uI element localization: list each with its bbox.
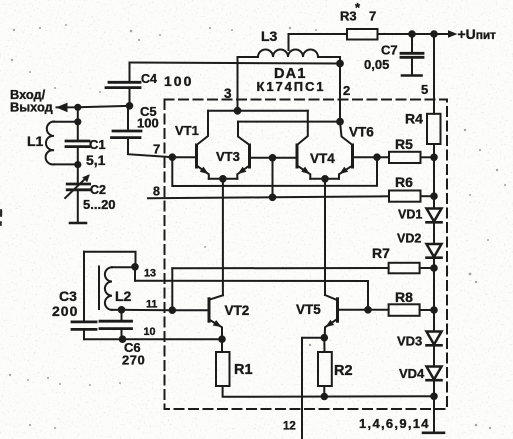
svg-text:0,05: 0,05 [364, 57, 389, 72]
svg-text:5,1: 5,1 [86, 152, 106, 168]
svg-text:C3: C3 [59, 288, 77, 304]
svg-text:5: 5 [421, 82, 428, 97]
svg-text:VT4: VT4 [310, 151, 335, 166]
svg-text:VT3: VT3 [216, 149, 240, 164]
svg-text:11: 11 [146, 299, 157, 311]
svg-text:8: 8 [153, 185, 160, 199]
svg-text:VT5: VT5 [296, 302, 321, 317]
svg-text:12: 12 [283, 421, 296, 433]
svg-text:7: 7 [153, 142, 160, 157]
svg-text:VD2: VD2 [397, 232, 421, 246]
svg-text:3: 3 [224, 86, 232, 101]
svg-text:200: 200 [52, 303, 78, 319]
svg-text:2: 2 [343, 83, 350, 98]
svg-text:R5: R5 [395, 136, 413, 152]
svg-text:R1: R1 [234, 362, 253, 378]
svg-text:R7: R7 [372, 245, 390, 261]
svg-text:1,4,6,9,14: 1,4,6,9,14 [359, 416, 430, 431]
svg-text:L1: L1 [27, 133, 44, 149]
svg-text:C1: C1 [89, 137, 106, 152]
svg-text:VT1: VT1 [175, 123, 199, 138]
svg-text:C4: C4 [141, 72, 157, 86]
svg-text:100: 100 [164, 73, 193, 89]
svg-text:R6: R6 [395, 174, 413, 190]
svg-text:270: 270 [122, 353, 145, 368]
svg-text:VT6: VT6 [349, 125, 374, 140]
svg-text:К174ПС1: К174ПС1 [257, 79, 326, 94]
svg-text:C7: C7 [381, 43, 398, 58]
svg-text:10: 10 [144, 326, 156, 338]
svg-text:VD4: VD4 [399, 366, 425, 381]
svg-text:Выход: Выход [10, 100, 53, 115]
svg-text:R4: R4 [405, 111, 423, 127]
svg-text:5...20: 5...20 [83, 197, 116, 212]
svg-text:R8: R8 [395, 289, 413, 305]
svg-text:+Uпит: +Uпит [458, 26, 497, 42]
svg-text:C2: C2 [90, 183, 106, 197]
svg-text:VT2: VT2 [225, 303, 250, 318]
svg-text:R2: R2 [334, 363, 353, 379]
svg-text:100: 100 [137, 116, 159, 131]
svg-text:VD3: VD3 [397, 334, 422, 349]
svg-text:L2: L2 [115, 288, 132, 304]
svg-text:VD1: VD1 [398, 208, 422, 222]
svg-text:7: 7 [369, 9, 376, 24]
svg-text:L3: L3 [261, 28, 278, 44]
svg-text:13: 13 [144, 268, 156, 280]
